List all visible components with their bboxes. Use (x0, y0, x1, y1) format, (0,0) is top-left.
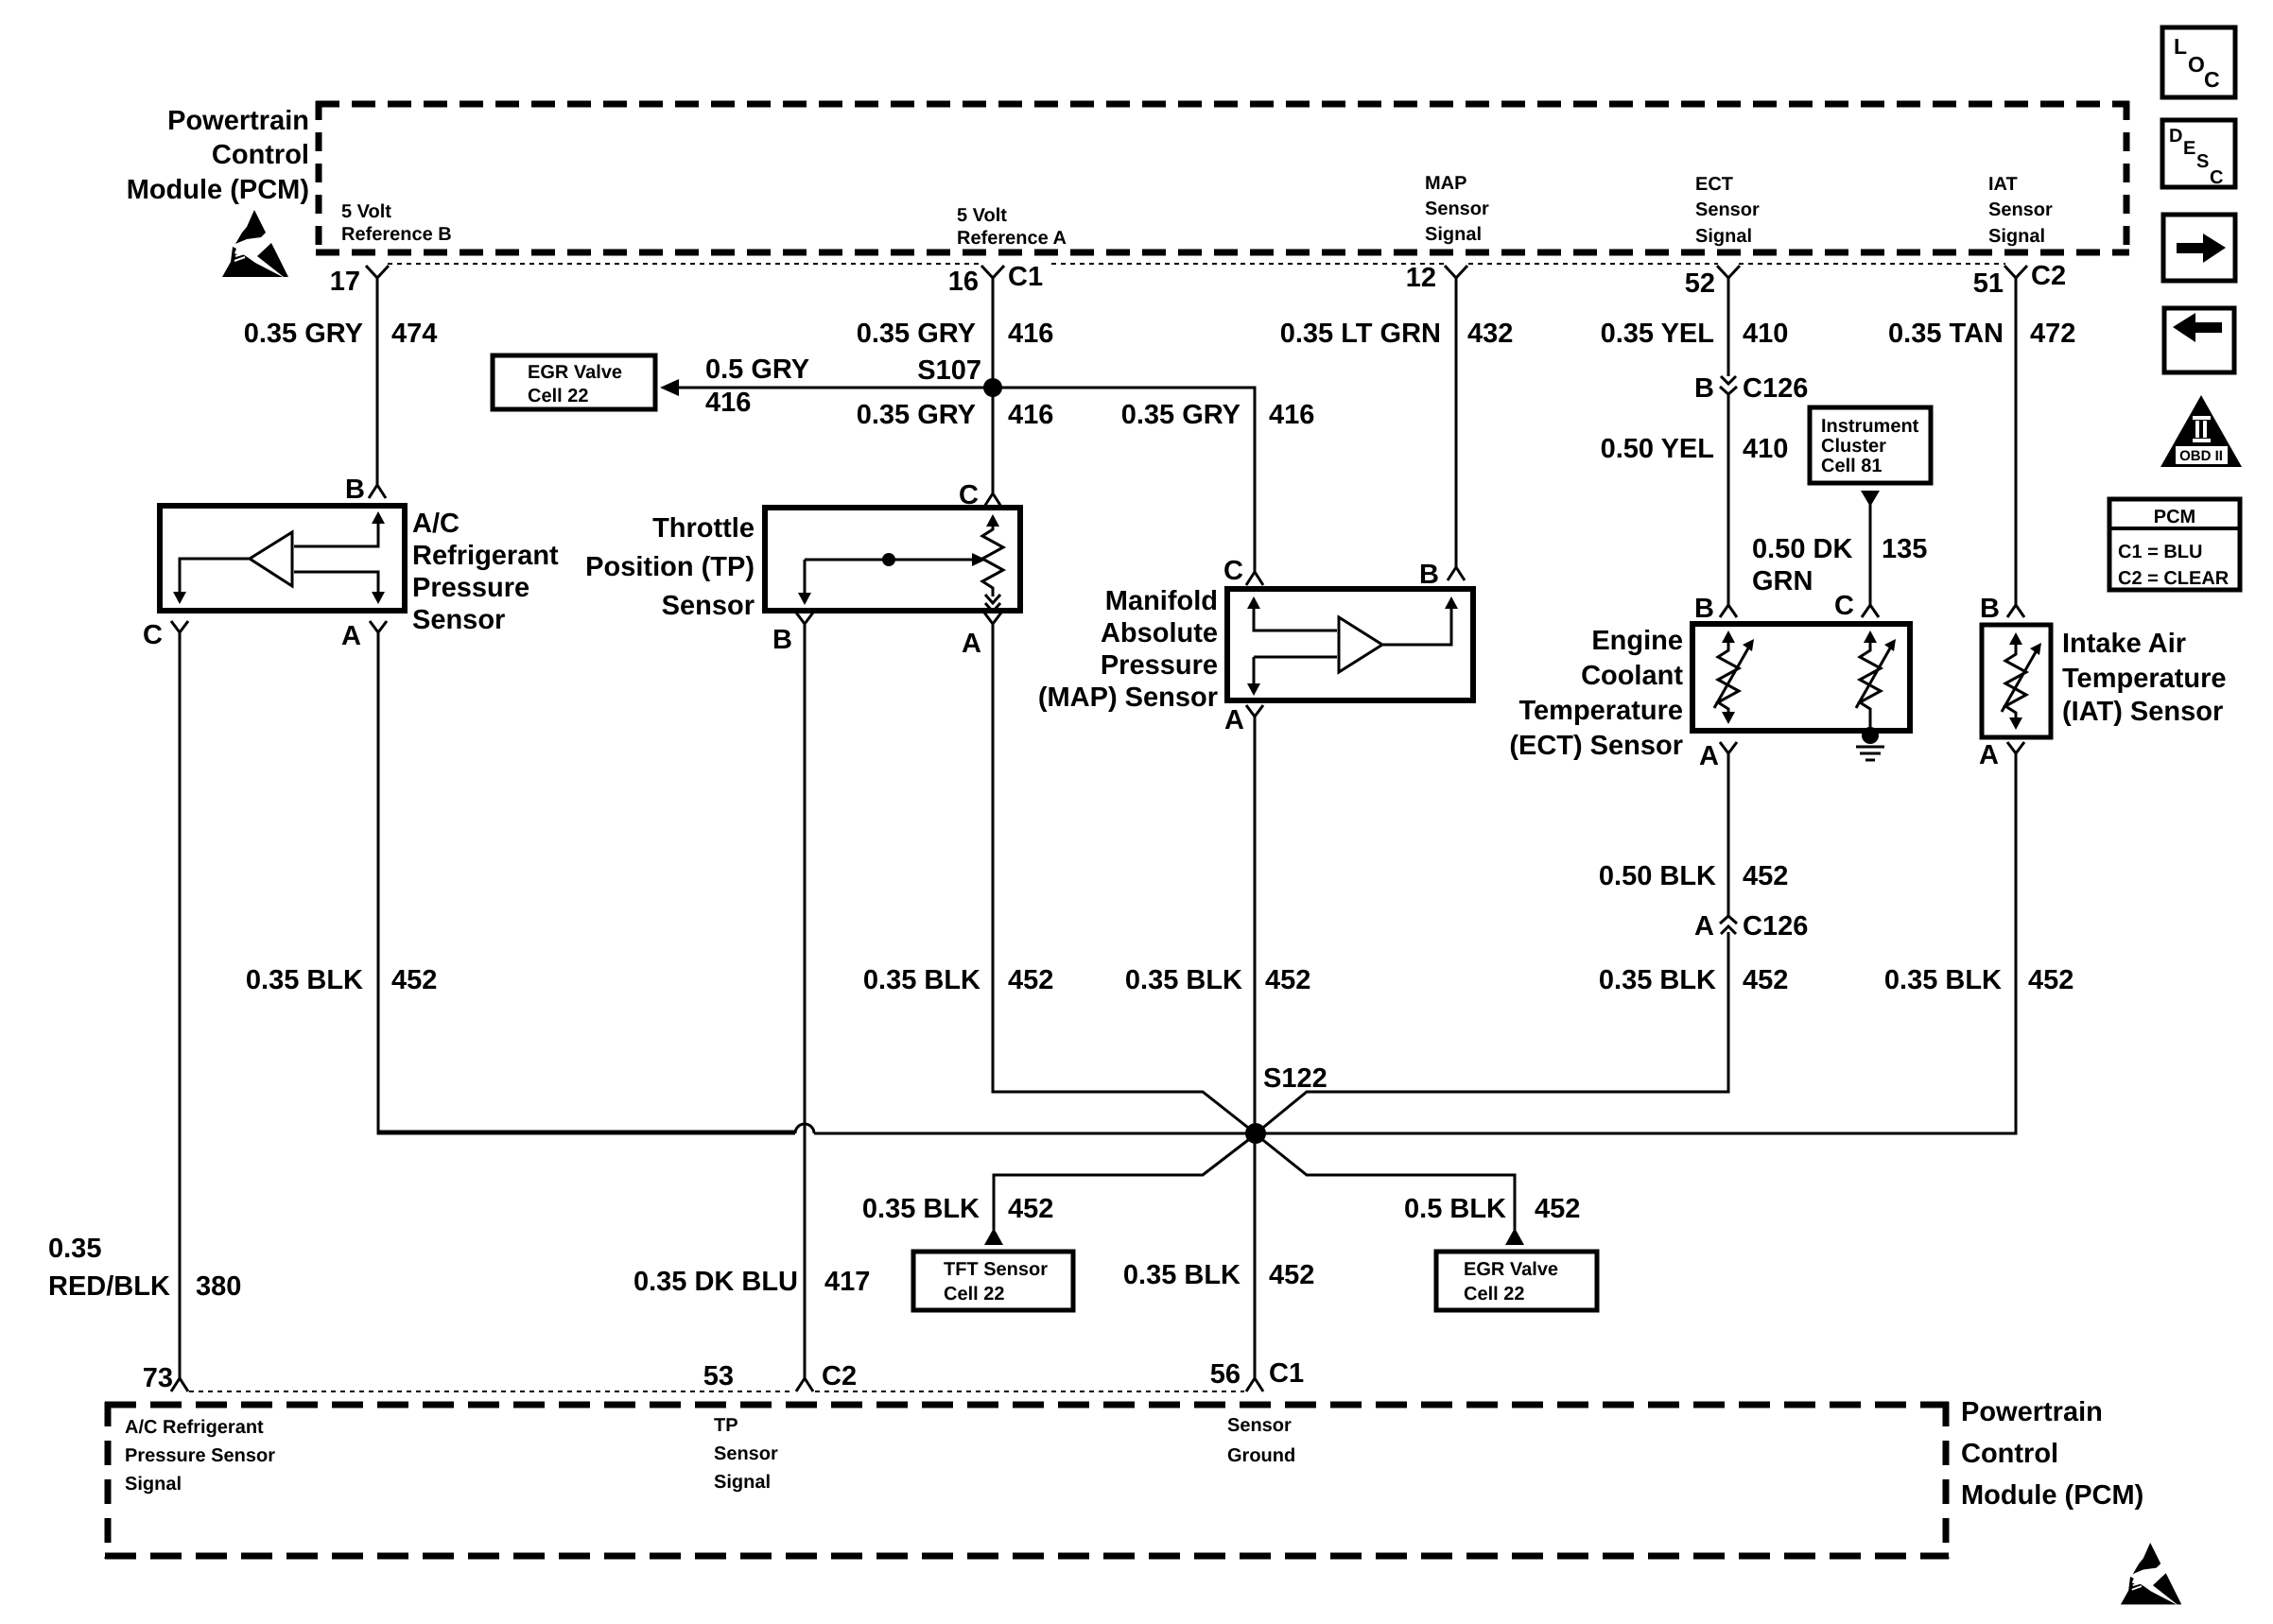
svg-text:Pressure Sensor: Pressure Sensor (125, 1445, 275, 1466)
A/C sensor internal C arrow (180, 559, 250, 592)
svg-text:452: 452 (1535, 1194, 1580, 1224)
svg-text:Pressure: Pressure (1101, 650, 1218, 681)
wire hop over TP signal wire (795, 1124, 814, 1133)
wire 472 TAN pin51 to IAT B (2015, 278, 2018, 605)
svg-text:B: B (1694, 594, 1714, 624)
svg-text:Temperature: Temperature (1518, 696, 1683, 726)
svg-text:A: A (962, 629, 981, 659)
svg-text:Module (PCM): Module (PCM) (1961, 1480, 2143, 1511)
svg-text:0.35 GRY: 0.35 GRY (244, 319, 363, 349)
svg-text:S107: S107 (917, 355, 981, 386)
svg-text:EGR Valve: EGR Valve (1464, 1259, 1558, 1280)
svg-text:Sensor: Sensor (1988, 199, 2053, 220)
svg-text:Signal: Signal (1425, 224, 1482, 245)
MAP pin C connector (1246, 572, 1263, 585)
svg-text:Sensor: Sensor (1695, 199, 1760, 220)
svg-text:C: C (2204, 67, 2220, 92)
svg-text:410: 410 (1743, 434, 1788, 464)
svg-text:12: 12 (1406, 263, 1436, 293)
TP pin B connector (796, 613, 813, 624)
wire 410 YEL C126 to ECT B (1727, 394, 1730, 605)
svg-text:ECT: ECT (1695, 174, 1733, 195)
svg-text:452: 452 (391, 965, 437, 995)
svg-text:0.35 GRY: 0.35 GRY (857, 400, 976, 430)
svg-text:C2 = CLEAR: C2 = CLEAR (2118, 568, 2230, 589)
svg-text:RED/BLK: RED/BLK (48, 1271, 170, 1302)
wire 452 BLK C126 to S122 (1259, 932, 1728, 1131)
pin 51 connector (2004, 266, 2027, 278)
Instrument Cluster Cell 81 box (1810, 407, 1931, 483)
A/C sensor internal B arrow (294, 519, 378, 546)
svg-text:Reference B: Reference B (341, 224, 452, 245)
svg-text:TFT Sensor: TFT Sensor (944, 1259, 1048, 1280)
connector C126 pin A (1721, 926, 1736, 934)
MAP sensor op-amp triangle (1339, 617, 1382, 672)
pin 16 connector (981, 266, 1004, 278)
svg-text:S: S (2196, 151, 2209, 172)
PCM top connector thin dashed line (388, 263, 2005, 265)
svg-text:Cell 22: Cell 22 (944, 1284, 1004, 1304)
wire 452 BLK MAP A to S122 to pin 56 (1254, 717, 1257, 1378)
svg-text:73: 73 (143, 1363, 173, 1393)
ECT thermistor C-ground (1860, 639, 1881, 731)
wire 432 LT GRN pin12 to MAP B (1455, 278, 1458, 567)
svg-text:Module (PCM): Module (PCM) (127, 175, 309, 205)
node S107 (983, 378, 1002, 397)
pin 52 connector (1717, 266, 1740, 278)
svg-text:Absolute: Absolute (1101, 618, 1218, 648)
svg-text:Instrument: Instrument (1821, 416, 1919, 437)
wire 452 BLK ECT A to C126 (1727, 753, 1730, 917)
svg-text:0.35 BLK: 0.35 BLK (1884, 965, 2002, 995)
svg-text:0.5 GRY: 0.5 GRY (705, 354, 809, 385)
ECT thermistor B-A (1718, 639, 1739, 716)
svg-text:0.35 BLK: 0.35 BLK (1123, 1260, 1241, 1290)
svg-text:0.50 DK: 0.50 DK (1752, 534, 1852, 564)
svg-text:C: C (1223, 556, 1243, 586)
svg-text:Cluster: Cluster (1821, 436, 1886, 457)
IAT pin B connector (2007, 605, 2024, 617)
svg-text:Position (TP): Position (TP) (585, 552, 755, 582)
svg-text:452: 452 (2028, 965, 2073, 995)
svg-text:432: 432 (1467, 319, 1513, 349)
svg-text:B: B (1980, 594, 2000, 624)
svg-text:S122: S122 (1263, 1063, 1327, 1094)
svg-text:D: D (2169, 126, 2182, 147)
PCM bottom dashed box (105, 1402, 1949, 1559)
TP sensor internal resistor (982, 518, 1003, 596)
svg-text:472: 472 (2030, 319, 2075, 349)
svg-text:380: 380 (196, 1271, 241, 1302)
svg-text:IAT: IAT (1988, 174, 2018, 195)
svg-text:16: 16 (948, 267, 979, 297)
svg-text:Sensor: Sensor (662, 591, 755, 621)
svg-text:A: A (1694, 911, 1714, 942)
svg-text:17: 17 (330, 267, 360, 297)
node S122 (1245, 1123, 1266, 1144)
svg-text:0.50 BLK: 0.50 BLK (1599, 861, 1716, 891)
svg-text:C1: C1 (1269, 1358, 1304, 1389)
svg-text:416: 416 (1008, 319, 1053, 349)
svg-text:51: 51 (1973, 268, 2004, 299)
svg-text:B: B (1694, 373, 1714, 404)
ECT pin B connector (1720, 605, 1737, 617)
svg-text:C126: C126 (1743, 911, 1808, 942)
svg-text:474: 474 (391, 319, 437, 349)
svg-text:O: O (2188, 52, 2205, 77)
svg-text:Throttle: Throttle (652, 513, 755, 544)
svg-text:Signal: Signal (125, 1474, 182, 1494)
pin 73 connector (171, 1378, 188, 1391)
svg-text:417: 417 (824, 1267, 870, 1297)
wire 474 GRY pin17 to A/C B (376, 278, 379, 485)
svg-text:C2: C2 (822, 1361, 857, 1391)
ground bus wire center segment (814, 1132, 1267, 1135)
ESD symbol bottom (2121, 1543, 2181, 1604)
svg-text:Control: Control (1961, 1439, 2058, 1469)
svg-text:E: E (2183, 138, 2195, 159)
wire 452 BLK IAT A to ground bus (1267, 753, 2016, 1133)
A/C pin C connector (171, 621, 188, 632)
svg-text:Signal: Signal (1695, 226, 1752, 247)
svg-text:52: 52 (1685, 268, 1715, 299)
svg-text:Reference A: Reference A (957, 228, 1067, 249)
wire 135 DK GRN instrument cluster to ECT C (1861, 491, 1880, 507)
svg-text:(ECT) Sensor: (ECT) Sensor (1509, 731, 1683, 761)
pin 12 connector (1445, 266, 1467, 278)
PCM bottom connector thin dashed line (189, 1391, 1244, 1392)
svg-text:Control: Control (212, 140, 309, 170)
svg-text:0.5 BLK: 0.5 BLK (1404, 1194, 1506, 1224)
svg-text:C126: C126 (1743, 373, 1808, 404)
svg-text:PCM: PCM (2154, 507, 2195, 527)
svg-text:C: C (2210, 167, 2223, 188)
wire 452 BLK A/C A to ground bus (378, 632, 795, 1133)
svg-text:Powertrain: Powertrain (1961, 1397, 2103, 1427)
icon forward arrow box (2163, 215, 2235, 281)
pin 17 connector (366, 266, 389, 278)
icon LOC box (2162, 27, 2235, 97)
svg-text:Manifold: Manifold (1105, 586, 1218, 616)
svg-text:Cell 81: Cell 81 (1821, 456, 1882, 476)
svg-text:0.35 BLK: 0.35 BLK (1125, 965, 1242, 995)
svg-text:0.35 GRY: 0.35 GRY (857, 319, 976, 349)
wire S122 lower-left branch to TFT sensor (994, 1137, 1252, 1230)
wire 452 BLK TP A to S122 (993, 624, 1252, 1131)
A/C sensor op-amp triangle (250, 532, 292, 586)
svg-text:416: 416 (705, 388, 751, 418)
svg-text:B: B (772, 625, 792, 655)
PCM connector legend table (2109, 499, 2240, 590)
svg-text:EGR Valve: EGR Valve (528, 362, 622, 383)
svg-text:135: 135 (1882, 534, 1927, 564)
svg-text:A/C: A/C (412, 509, 460, 539)
svg-text:452: 452 (1265, 965, 1310, 995)
svg-text:0.35 DK BLU: 0.35 DK BLU (633, 1267, 798, 1297)
svg-text:0.35 BLK: 0.35 BLK (862, 1194, 980, 1224)
svg-text:Cell 22: Cell 22 (1464, 1284, 1524, 1304)
svg-text:Cell 22: Cell 22 (528, 386, 588, 406)
svg-text:MAP: MAP (1425, 173, 1466, 194)
svg-text:0.50 YEL: 0.50 YEL (1601, 434, 1714, 464)
Throttle Position (TP) Sensor box (765, 508, 1020, 611)
svg-text:Intake Air: Intake Air (2062, 629, 2186, 659)
A/C pin A connector (370, 621, 387, 632)
Intake Air Temperature (IAT) Sensor box (1982, 625, 2051, 737)
wire 416 GRY S107 to MAP C (993, 388, 1255, 572)
ECT pin C connector (1862, 605, 1879, 617)
svg-text:C2: C2 (2031, 261, 2066, 291)
svg-text:0.35 YEL: 0.35 YEL (1601, 319, 1714, 349)
A/C Refrigerant Pressure Sensor box (160, 506, 405, 611)
connector C126 pin B (1721, 376, 1736, 384)
ECT pin A connector (1720, 742, 1737, 753)
svg-text:452: 452 (1008, 965, 1053, 995)
svg-text:Sensor: Sensor (412, 605, 505, 635)
MAP sensor internal C arrow (1254, 604, 1337, 631)
svg-text:56: 56 (1210, 1359, 1241, 1390)
MAP pin B connector (1448, 567, 1465, 580)
TP pin A connector (984, 613, 1001, 624)
svg-text:GRN: GRN (1752, 566, 1813, 596)
svg-text:416: 416 (1269, 400, 1314, 430)
svg-text:Ground: Ground (1227, 1445, 1295, 1466)
icon DESC box (2162, 120, 2235, 187)
arrow into EGR valve box (1505, 1228, 1524, 1245)
MAP sensor internal A arrow (1254, 657, 1337, 683)
wire 417 DK BLU TP B to pin 53 (804, 624, 807, 1378)
svg-text:0.35: 0.35 (48, 1234, 101, 1264)
svg-text:(IAT) Sensor: (IAT) Sensor (2062, 697, 2223, 727)
MAP pin A connector (1246, 705, 1263, 717)
svg-text:Temperature: Temperature (2062, 664, 2227, 694)
svg-text:Signal: Signal (1988, 226, 2045, 247)
A/C sensor internal A arrow (294, 572, 378, 592)
EGR Valve Cell 22 box (top) (493, 355, 655, 409)
TFT Sensor Cell 22 box (913, 1252, 1073, 1310)
Manifold Absolute Pressure (MAP) Sensor box (1227, 589, 1473, 700)
svg-text:0.35 BLK: 0.35 BLK (863, 965, 980, 995)
icon back arrow box (2164, 308, 2234, 372)
svg-text:A: A (1979, 740, 1999, 770)
wire 380 RED/BLK A/C C to pin 73 (179, 632, 182, 1378)
svg-text:Powertrain: Powertrain (167, 106, 309, 136)
svg-text:A: A (1224, 705, 1244, 735)
svg-text:C: C (143, 620, 163, 650)
svg-text:C1 = BLU: C1 = BLU (2118, 542, 2202, 562)
svg-text:C: C (1834, 591, 1854, 621)
svg-text:A/C Refrigerant: A/C Refrigerant (125, 1417, 264, 1438)
IAT thermistor (2005, 641, 2026, 720)
svg-text:5 Volt: 5 Volt (957, 205, 1007, 226)
svg-text:0.35 TAN: 0.35 TAN (1888, 319, 2004, 349)
svg-text:B: B (345, 475, 365, 505)
svg-text:L: L (2174, 34, 2187, 59)
EGR Valve Cell 22 box (bottom) (1436, 1252, 1597, 1310)
TP sensor wiper arrow (805, 559, 975, 561)
pin 53 connector (796, 1378, 813, 1391)
IAT pin A connector (2007, 742, 2024, 753)
svg-text:0.35 GRY: 0.35 GRY (1121, 400, 1241, 430)
svg-text:Signal: Signal (714, 1472, 771, 1493)
svg-text:C1: C1 (1008, 262, 1043, 292)
svg-text:452: 452 (1008, 1194, 1053, 1224)
svg-text:A: A (341, 621, 361, 651)
TP pin C connector (984, 493, 1001, 507)
svg-text:53: 53 (703, 1361, 734, 1391)
svg-text:0.35 BLK: 0.35 BLK (246, 965, 363, 995)
Engine Coolant Temperature (ECT) Sensor box (1692, 624, 1910, 731)
wire 416 GRY S107 to EGR valve (677, 387, 993, 389)
wire 416 GRY pin16 to TP C with S107 (992, 278, 995, 493)
wire 410 YEL pin52 to C126 (1727, 278, 1730, 376)
svg-text:Sensor: Sensor (714, 1443, 778, 1464)
svg-text:Coolant: Coolant (1581, 661, 1683, 691)
arrow into TFT sensor box (984, 1228, 1003, 1245)
svg-text:A: A (1699, 741, 1719, 771)
ECT internal ground (1862, 727, 1879, 744)
svg-text:416: 416 (1008, 400, 1053, 430)
icon OBD II triangle (2160, 395, 2242, 467)
ground bus wire left segment with hop (378, 1131, 796, 1133)
pin 56 connector (1246, 1378, 1263, 1391)
svg-text:Sensor: Sensor (1227, 1415, 1292, 1436)
svg-text:452: 452 (1743, 965, 1788, 995)
MAP sensor internal B arrow (1382, 606, 1451, 645)
A/C pin B connector (369, 485, 386, 498)
svg-text:Sensor: Sensor (1425, 199, 1489, 219)
svg-text:Engine: Engine (1591, 626, 1683, 656)
ESD symbol top (222, 210, 288, 277)
svg-text:Refrigerant: Refrigerant (412, 541, 559, 571)
wire S122 lower-right branch to EGR valve (1259, 1137, 1515, 1230)
svg-text:5 Volt: 5 Volt (341, 201, 391, 222)
svg-text:0.35 LT GRN: 0.35 LT GRN (1280, 319, 1441, 349)
svg-text:452: 452 (1743, 861, 1788, 891)
svg-text:B: B (1419, 560, 1439, 590)
svg-text:452: 452 (1269, 1260, 1314, 1290)
svg-text:OBD II: OBD II (2179, 448, 2223, 464)
svg-text:0.35 BLK: 0.35 BLK (1599, 965, 1716, 995)
PCM top dashed box (316, 101, 2129, 255)
svg-text:410: 410 (1743, 319, 1788, 349)
svg-text:Pressure: Pressure (412, 573, 529, 603)
svg-text:(MAP) Sensor: (MAP) Sensor (1038, 682, 1218, 713)
svg-text:TP: TP (714, 1415, 738, 1436)
